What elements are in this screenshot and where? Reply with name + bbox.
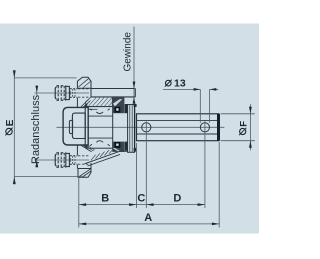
dia 13 dim line: [163, 88, 200, 90]
cap corner wedge bottom: [83, 145, 88, 149]
stud collar top: [66, 86, 70, 99]
hub rear column: [128, 105, 135, 153]
dia 13 arrows: [194, 88, 201, 91]
svg-text:13: 13: [174, 78, 186, 90]
stud centerline bottom: [35, 159, 90, 161]
BCD dim line: [79, 204, 205, 206]
hub cap inner: [72, 113, 85, 138]
rear column dark bar bottom: [125, 142, 128, 151]
bearing top: [112, 97, 124, 113]
main centerline: [57, 126, 225, 128]
svg-text:F: F: [238, 121, 249, 127]
hub cavity: [88, 107, 113, 149]
cavity top ledge: [88, 108, 98, 110]
svg-text:D: D: [173, 193, 181, 205]
shaft bore bottom: [137, 133, 218, 135]
svg-text:B: B: [101, 193, 109, 205]
Gewinde leader: [133, 27, 135, 104]
stud hole hidden lines bottom: [78, 155, 89, 157]
dia E arrows: [13, 70, 16, 78]
flange top corner block: [77, 77, 91, 88]
B left arrow: [79, 203, 86, 206]
arrowheads: [13, 70, 252, 225]
stud hole hidden lines top: [78, 88, 89, 90]
rear corner dark top: [134, 104, 137, 107]
Radanschluss arrows: [35, 86, 38, 93]
svg-text:Gewinde: Gewinde: [123, 32, 134, 72]
Gewinde arrows: [133, 82, 136, 89]
ext line shaft end: [218, 142, 220, 228]
flange face lines: [76, 98, 78, 108]
shaft end bar: [217, 114, 220, 141]
cap corner wedge top: [83, 103, 88, 107]
hub cap outer: [63, 107, 88, 145]
wheel stud top: [55, 86, 88, 100]
B right arrow: [129, 203, 136, 206]
cavity grease marks bottom: [96, 141, 103, 143]
hub barrel top wall hatch: [86, 97, 113, 107]
svg-text:C: C: [137, 193, 145, 205]
A dim line: [79, 223, 219, 225]
A right arrow: [212, 223, 219, 226]
shaft shoulder: [134, 107, 136, 149]
hole 1: [142, 123, 151, 132]
stud thread bottom: [70, 155, 78, 157]
bearing bottom: [112, 142, 124, 152]
background band: [0, 24, 259, 234]
A left arrow: [79, 223, 86, 226]
stud thread top: [70, 88, 78, 90]
label dia 13: [166, 80, 172, 86]
dimension work: [14, 27, 255, 228]
hub thread band (Gewinde): [91, 88, 135, 90]
dia E dimension line: [13, 70, 15, 184]
dia F dim line: [249, 104, 251, 150]
svg-text:A: A: [144, 212, 152, 224]
hole 2: [200, 123, 209, 132]
flange-hub junction cone top: [81, 100, 91, 107]
stud head bottom: [55, 154, 56, 166]
stud head top: [55, 87, 56, 99]
svg-text:E: E: [5, 119, 16, 126]
rear corner dark bottom: [134, 148, 137, 152]
Radanschluss dim stubs: [36, 86, 38, 95]
wheel stud bottom: [55, 153, 88, 167]
rear column dark bar top: [125, 104, 128, 113]
axle shaft outer: [137, 114, 219, 141]
dia F arrows: [249, 107, 252, 114]
cap bottom cone: [81, 146, 91, 152]
flange bottom corner block: [78, 169, 91, 178]
spindle tip: [69, 120, 72, 133]
ext line hole 2: [204, 121, 206, 208]
D right arrow: [198, 203, 205, 206]
ext line mounting face: [78, 178, 80, 228]
dia 13 extension lines: [199, 89, 201, 122]
ext line shaft start: [135, 143, 137, 208]
cavity grease marks top: [96, 112, 103, 114]
dia F extension lines: [221, 113, 255, 115]
stud centerline top: [35, 92, 90, 94]
svg-text:Radanschluss: Radanschluss: [30, 94, 42, 164]
shaft bore top: [137, 120, 218, 122]
hub bottom slope: [85, 151, 120, 164]
dia E extension lines: [14, 77, 76, 79]
cap flange double line: [84, 107, 86, 145]
D left arrow: [146, 203, 153, 206]
stud collar bottom: [66, 153, 70, 166]
ext line hole 1: [145, 121, 147, 208]
